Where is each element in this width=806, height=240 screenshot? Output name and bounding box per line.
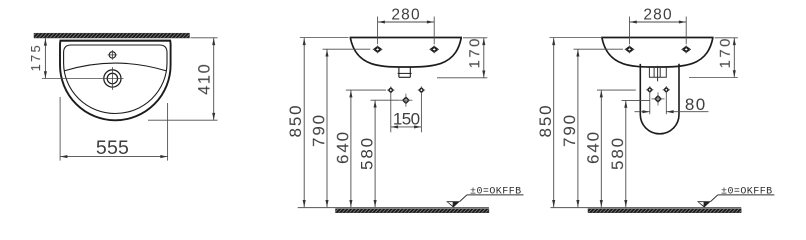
pedestal fixing hole left (80) — [648, 88, 652, 92]
dimension 640 line (right) — [600, 90, 602, 207]
datum underline — [718, 194, 775, 196]
waste hole — [403, 97, 409, 103]
datum leader line — [460, 195, 467, 202]
svg-text:80: 80 — [685, 95, 707, 114]
svg-text:410: 410 — [196, 63, 214, 95]
dimension 580 line — [374, 100, 376, 207]
dimension 640 line — [350, 90, 352, 207]
datum level symbol triangle — [697, 201, 711, 207]
datum leader line — [711, 195, 718, 202]
svg-text:175: 175 — [28, 43, 43, 71]
washbasin plan inner rim — [64, 45, 167, 114]
pedestal fixing hole left — [389, 88, 393, 92]
svg-text:640: 640 — [333, 130, 352, 164]
dimension 410 line — [213, 38, 215, 120]
floor line right — [551, 207, 742, 209]
washbasin front outline — [350, 38, 462, 68]
dimension 790 line (right) — [577, 49, 579, 207]
dimension 555 line — [60, 156, 168, 158]
dimension 80 extension lines — [649, 93, 651, 114]
dimension 280 extension lines — [377, 17, 379, 45]
svg-text:790: 790 — [309, 113, 328, 147]
floor slab middle (hatched) — [336, 209, 489, 213]
svg-text:580: 580 — [608, 136, 627, 170]
svg-text:280: 280 — [643, 6, 672, 23]
pedestal fixing hole right (80) — [664, 88, 668, 92]
svg-text:850: 850 — [286, 103, 305, 137]
pedestal fixing hole right — [419, 88, 423, 92]
washbasin front outline (pedestal version) — [601, 38, 713, 68]
svg-text:640: 640 — [584, 130, 603, 164]
svg-text:280: 280 — [391, 6, 420, 23]
semi-pedestal outline — [640, 64, 679, 134]
dimension 555 extension left — [59, 97, 61, 161]
dimension 850 line (right) — [553, 38, 555, 208]
dimension 410 extension bottom — [148, 119, 218, 121]
dimension 175 extension line — [42, 78, 101, 80]
svg-text:±0=OKFFB: ±0=OKFFB — [721, 186, 773, 197]
dimension 640 extension — [346, 89, 386, 91]
svg-text:170: 170 — [717, 36, 734, 68]
svg-text:850: 850 — [536, 103, 555, 137]
dimension 150 extension lines — [390, 94, 392, 133]
dimension 640 extension (right) — [597, 89, 636, 91]
dimension 170 line — [483, 38, 485, 78]
svg-text:790: 790 — [560, 113, 579, 147]
dimension 80 line — [635, 111, 650, 113]
washbasin plan deck curve — [64, 63, 166, 71]
dimension 150 line — [391, 126, 422, 128]
datum level symbol triangle — [446, 201, 460, 207]
left view wall (hatched bar) — [34, 33, 190, 38]
svg-text:150: 150 — [393, 109, 420, 128]
waste hole (pedestal view) — [655, 96, 661, 102]
drain tailpiece — [398, 67, 400, 77]
mounting hole left (pedestal view) — [626, 47, 632, 52]
dimension 790 extension — [323, 48, 371, 50]
mounting hole right (pedestal view) — [683, 47, 689, 52]
dimension 580 extension — [371, 99, 400, 101]
svg-text:555: 555 — [96, 137, 129, 159]
mounting hole right — [431, 47, 437, 52]
drain pipe in pedestal — [649, 67, 666, 77]
dimension 280 line (right) — [630, 21, 687, 23]
dimension 850 line — [303, 38, 305, 208]
dimension 410 extension top — [191, 37, 218, 39]
faucet hole — [104, 70, 121, 87]
dimension 170 extension top — [463, 37, 487, 39]
dimension 790 extension (right) — [574, 48, 624, 50]
dimension 580 line (right) — [625, 100, 627, 207]
svg-text:580: 580 — [358, 136, 377, 170]
washbasin plan outer outline — [60, 41, 171, 121]
overflow hole — [109, 52, 115, 58]
dimension 555 extension right — [167, 103, 169, 161]
dimension 170 extension top (right) — [715, 37, 738, 39]
dimension 790 line — [326, 49, 328, 207]
svg-text:170: 170 — [466, 36, 483, 68]
dimension 280 extension lines (right) — [629, 17, 631, 45]
mounting hole left — [374, 47, 380, 52]
dimension 170 extension bottom (right) — [689, 77, 738, 79]
dimension 850 extension (right) — [550, 37, 603, 39]
dimension 580 extension (right) — [622, 99, 650, 101]
floor line middle — [298, 207, 489, 209]
svg-text:±0=OKFFB: ±0=OKFFB — [470, 186, 522, 197]
dimension 170 line (right) — [733, 38, 735, 78]
dimension 280 line — [378, 21, 435, 23]
dimension 175 line — [44, 38, 46, 78]
floor slab right (hatched) — [588, 209, 741, 213]
dimension 170 extension bottom — [437, 77, 487, 79]
datum underline — [467, 194, 524, 196]
dimension 850 extension — [300, 37, 349, 39]
